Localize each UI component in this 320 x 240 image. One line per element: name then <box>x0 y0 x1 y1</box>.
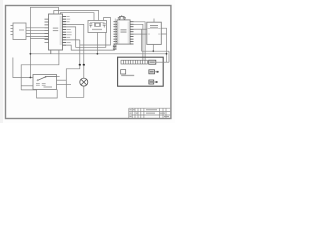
crystal Q1 <box>95 23 99 26</box>
wire IC1 top XTAL nets <box>30 7 98 77</box>
capacitor C2 <box>103 24 106 28</box>
wires LCD right side <box>154 62 169 82</box>
coil marks <box>36 84 46 86</box>
U3 top pin <box>153 19 155 23</box>
wire W2 <box>66 27 106 47</box>
wire W3 <box>66 45 114 50</box>
IC2 right pins <box>130 22 133 44</box>
lamp feed wires <box>66 24 84 64</box>
wire W1 IC1 to crystal clock route <box>66 18 114 51</box>
IC1 microcontroller <box>49 14 63 50</box>
relay K1 <box>33 75 57 90</box>
title block <box>129 108 170 118</box>
switch contact <box>38 77 57 81</box>
IC1 right pins <box>63 17 67 46</box>
LCD square pad <box>121 70 126 74</box>
lamp LP1 <box>80 78 88 86</box>
drawing frame <box>6 6 171 119</box>
wires connector to IC1 <box>26 28 49 37</box>
U3 driver <box>147 22 162 44</box>
left wires to relay <box>13 58 57 99</box>
wires IC2 to LCD strip <box>134 22 146 60</box>
node junction bus-left <box>30 53 32 55</box>
connector X1 <box>13 23 26 40</box>
wire gnd rail right <box>142 29 169 62</box>
node junction crystal-bus <box>97 53 99 55</box>
capacitor C3 C4 on IC2 top <box>118 15 126 20</box>
IC1 left pins <box>45 19 49 42</box>
title block text <box>130 109 170 117</box>
capacitor C1 <box>89 24 92 28</box>
connector X1 left pins <box>11 26 14 35</box>
LCD contrast box <box>149 60 156 64</box>
LCD label text <box>121 75 134 76</box>
wire reset net to IC1 <box>30 38 48 40</box>
wire vcc through pin field <box>114 19 116 45</box>
wire lamp loop <box>66 65 84 98</box>
bus wire horizontal <box>30 53 166 55</box>
IC1 bottom pin wire <box>21 50 59 90</box>
wire lamp top <box>83 65 85 78</box>
crystal oscillator module <box>88 21 107 33</box>
IC2 <box>117 20 130 44</box>
capacitor C5 C6 under IC2 <box>113 44 117 50</box>
LED- box <box>149 80 154 84</box>
page edge shading <box>0 0 3 123</box>
U3 bottom pin <box>152 44 154 51</box>
LCD module box <box>118 57 164 86</box>
crystal bottom pin to bus <box>96 33 98 54</box>
LCD pin header strip <box>121 60 147 64</box>
IC1 bottom pin 2 to bus <box>50 50 52 54</box>
wires IC2 to U3 <box>134 29 147 34</box>
wire arrows <box>157 71 159 73</box>
relay right pins <box>57 77 72 85</box>
U3 right pins wire down <box>161 28 166 62</box>
IC1 pin name texture <box>60 16 62 45</box>
node junction relay pin <box>30 77 32 79</box>
IC1 right pin net labels <box>67 16 72 43</box>
LED+ box <box>149 70 155 74</box>
IC2 left pins <box>114 22 118 44</box>
node junction dots <box>79 64 81 66</box>
